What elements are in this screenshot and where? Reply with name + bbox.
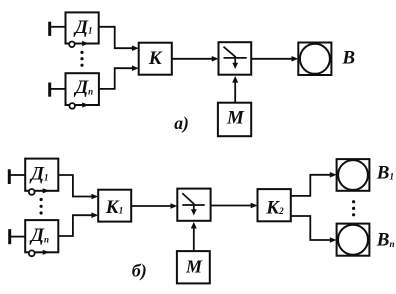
svg-text:а): а) [174,113,189,133]
svg-text:К: К [148,48,163,69]
svg-text:М: М [185,257,203,277]
svg-text:М: М [226,108,245,129]
svg-text:б): б) [132,261,147,282]
svg-text:В: В [341,47,355,68]
